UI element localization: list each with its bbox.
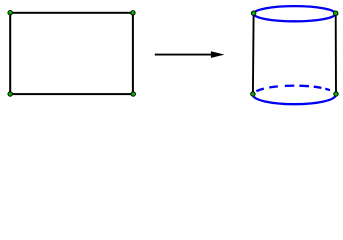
- point H (cylinder bottom-right): [334, 92, 339, 97]
- point E (cylinder top-left): [251, 11, 256, 16]
- point B (rect top-right): [131, 11, 136, 16]
- point C (rect bottom-left): [8, 92, 13, 97]
- cylinder bottom ellipse back arc (dashed): [253, 86, 336, 95]
- cylinder bottom ellipse front arc (solid): [253, 95, 336, 104]
- point F (cylinder top-right): [333, 11, 338, 16]
- rectangle (net of cylinder side): [10, 13, 133, 94]
- cylinder top ellipse: [253, 6, 335, 21]
- arrow shaft: [155, 54, 213, 56]
- point G (cylinder bottom-left): [251, 92, 256, 97]
- point D (rect bottom-right): [131, 92, 136, 97]
- point A (rect top-left): [8, 10, 13, 15]
- cylinder right side line: [335, 13, 337, 94]
- cylinder left side line: [252, 13, 255, 94]
- arrow head: [211, 51, 225, 58]
